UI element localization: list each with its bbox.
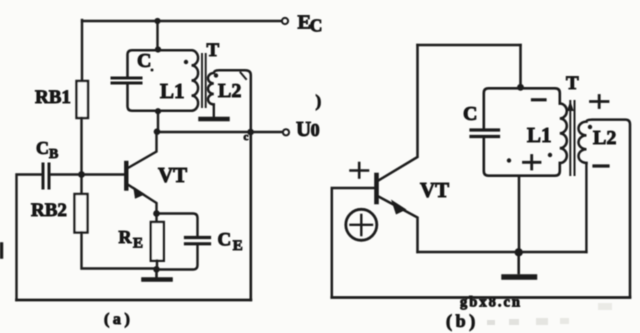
transistor VT (a): emitter arrowhead [133, 187, 145, 199]
svg-text:CE: CE [218, 230, 243, 255]
capacitor C (a): plates on left edge of tank box [112, 78, 141, 83]
polarity minus in tank (b) [533, 98, 546, 101]
transistor VT (a): collector stroke [127, 132, 157, 169]
transistor VT (b): emitter arrowhead [391, 200, 407, 215]
wire: collector rail y=132 to U0 terminal [157, 131, 283, 133]
wire: top rail down to tank box top [519, 45, 522, 87]
polarity minus below L2 (b) [594, 164, 608, 167]
wire: emitter bottom rail of (b) [418, 251, 587, 253]
ground (b): stub and bar [517, 252, 520, 273]
wire: top supply rail y=21 [82, 20, 281, 22]
resistor RE [151, 222, 164, 261]
tank box (a): rounded rectangle outline (left,top,bottom edges) [128, 50, 192, 111]
svg-text:C: C [463, 103, 477, 125]
svg-text:C: C [137, 50, 151, 72]
current source: circle [346, 209, 377, 240]
artifact tick above L2 (a) [241, 73, 247, 80]
wire: tank box bottom to collector rail [157, 111, 159, 132]
core arrow up (b) [567, 101, 574, 111]
tank box (b): rounded rectangle outline [484, 88, 560, 175]
wire: emitter junction to CE branch [157, 214, 198, 237]
svg-text:T: T [566, 73, 579, 94]
wire: tank bottom to ground junction (b) [518, 176, 521, 252]
inductor L1 (b): coil bumps on right edge [560, 104, 567, 164]
phase dot L1 (a) [184, 60, 188, 64]
svg-text:c: c [244, 131, 249, 143]
wire: bottom frame of (a) [17, 299, 251, 302]
inductor L2 (a): coil and rounded top to right edge [208, 70, 251, 131]
current source: plus mark inside [351, 215, 373, 235]
node: junction dot collector rail left [154, 128, 161, 135]
wire: RB1 top vertical from rail corner down [81, 20, 83, 81]
svg-text:VT: VT [420, 178, 449, 202]
terminal EC: open circle [282, 18, 288, 24]
svg-text:CB: CB [36, 138, 58, 162]
transistor VT (b): collector stroke up to top rail [378, 45, 418, 181]
wire: left frame wire from CB left plate [17, 175, 44, 301]
phase dot L2 (b) [588, 125, 592, 129]
node: junction dot L2 output on rail [247, 129, 254, 136]
inductor L1 (a): coil bumps on right edge [192, 50, 199, 110]
polarity plus above L2 (b) [591, 96, 609, 108]
wire: emitter junction down to RE [155, 214, 157, 223]
svg-text:(b): (b) [446, 311, 479, 332]
wire: base wire and left frame of (b) [332, 188, 375, 297]
transformer T core lines (a) [202, 54, 206, 107]
node: emitter junction dot [153, 210, 160, 217]
ground (a): stub and bar [155, 269, 158, 277]
svg-text:EC: EC [298, 12, 323, 36]
phase dot tank left (b) [507, 158, 511, 162]
node: junction dot at tank box top [155, 46, 161, 52]
wire: CB right plate to base bar [49, 173, 125, 175]
node: junction dot on top rail above tank [154, 18, 160, 24]
transistor VT (b): emitter stroke [378, 196, 418, 252]
wire: RB1 bottom to base junction [80, 118, 82, 174]
transistor VT (a): base bar [124, 163, 128, 189]
label + at base (b) [351, 163, 369, 178]
node: base bias junction dot [78, 171, 85, 178]
svg-text:(a): (a) [104, 311, 133, 328]
svg-text:L2: L2 [593, 127, 616, 149]
svg-text:gbx8.cn: gbx8.cn [460, 295, 522, 311]
artifact dot after C (a) [151, 69, 154, 72]
capacitor C (b): plates on left edge [471, 130, 499, 137]
wire: CE bottom to ground wire [157, 246, 198, 270]
svg-text:RB2: RB2 [31, 200, 67, 221]
terminal U0: open circle [283, 129, 289, 135]
wire: L2 bottom down to emitter rail [585, 163, 587, 252]
svg-text:VT: VT [158, 163, 187, 187]
resistor RB1 [77, 81, 89, 118]
capacitor CE plates [186, 238, 210, 244]
node: ground junction dot (b) [515, 248, 523, 256]
wire: bottom frame of (b) [332, 296, 630, 299]
artifact: faint watermark remnants right of (b) [487, 303, 612, 325]
phase dot L2 (a) [214, 73, 218, 77]
svg-text:L2: L2 [218, 80, 241, 102]
wire: RB2 bottom down and right to ground junction [82, 233, 157, 269]
wire: right frame of (a) from U0 junction down [250, 132, 253, 300]
node: junction dot tank top (b) [517, 84, 524, 91]
svg-text:L1: L1 [527, 123, 552, 147]
node: ground junction dot (a) [153, 266, 160, 273]
transistor VT (a): emitter stroke [127, 184, 157, 214]
wire: RE bottom to ground junction [156, 261, 158, 270]
phase dot tank right (b) [548, 153, 552, 157]
resistor RB2 [75, 194, 88, 233]
wire: top rail of (b) [418, 44, 521, 47]
svg-text:RE: RE [119, 227, 144, 252]
wire: junction down to RB2 [80, 175, 82, 195]
transistor VT (b): base bar [374, 175, 379, 202]
polarity plus in tank (b) [524, 156, 541, 170]
artifact: dark mark at left image edge [0, 244, 3, 257]
capacitor CB plates [43, 164, 49, 188]
wire: vertical from top rail to tank box top [156, 21, 158, 49]
transformer T core lines (b) [570, 101, 574, 175]
svg-text:T: T [207, 40, 220, 61]
svg-text:U0: U0 [296, 117, 320, 141]
svg-text:RB1: RB1 [35, 87, 71, 108]
node: junction dot tank bottom [155, 108, 161, 114]
inductor L2 (b): coil with rounded top wire to right frame [579, 120, 631, 297]
svg-text:): ) [316, 92, 322, 111]
svg-text:L1: L1 [160, 79, 185, 103]
ground under L2 (a): stub and bar [213, 105, 215, 118]
